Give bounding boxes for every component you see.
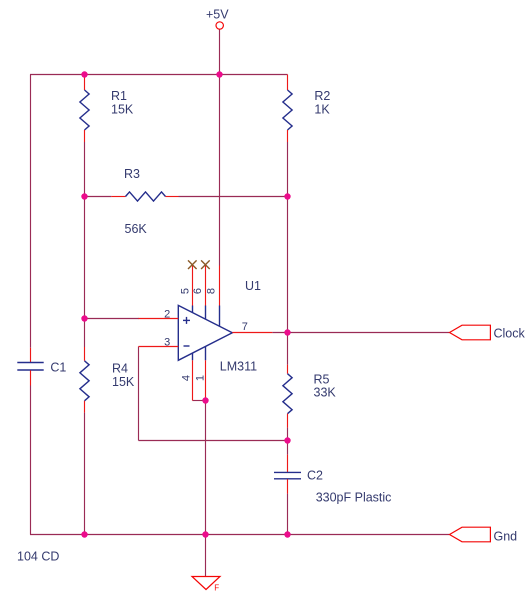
wire +5V stem bbox=[219, 29, 221, 74]
svg-text:15K: 15K bbox=[111, 103, 134, 117]
junction node R3 left bbox=[81, 193, 87, 199]
pin 3 bbox=[139, 337, 179, 349]
svg-text:6: 6 bbox=[192, 288, 204, 294]
wire pins 1-4 node to bottom rail bbox=[205, 401, 207, 535]
wire +5V rail down to pin 8 bbox=[219, 75, 221, 266]
wire R3 node to pin2 node bbox=[84, 197, 86, 348]
wire ground stem bbox=[205, 535, 207, 577]
pin 5 bbox=[180, 265, 193, 313]
wire pin4 jog bbox=[193, 400, 206, 402]
junction node R3 right bbox=[284, 193, 290, 199]
op-amp U1 LM311 bbox=[178, 279, 261, 374]
svg-text:2: 2 bbox=[164, 309, 170, 321]
svg-text:5: 5 bbox=[180, 288, 192, 294]
no-connect X on pin 5 bbox=[188, 260, 197, 269]
pin 7 bbox=[232, 321, 272, 333]
capacitor C2 bbox=[274, 455, 391, 505]
junction node bottom ground bbox=[202, 531, 208, 537]
svg-text:Gnd: Gnd bbox=[494, 529, 518, 543]
junction node +5V rail bbox=[216, 71, 222, 77]
wire output row bbox=[272, 332, 449, 334]
svg-text:15K: 15K bbox=[112, 375, 135, 389]
svg-text:+5V: +5V bbox=[206, 7, 229, 21]
wire R3 row left bbox=[85, 196, 112, 198]
no-connect X on pin 6 bbox=[201, 260, 210, 269]
junction node output bbox=[284, 329, 290, 335]
wire left rail lower (C1 to bottom rail) bbox=[30, 386, 32, 535]
svg-text:U1: U1 bbox=[245, 279, 261, 293]
wire R1 to R3 node bbox=[84, 142, 86, 197]
svg-text:8: 8 bbox=[206, 288, 218, 294]
junction node pin 2 bbox=[81, 315, 87, 321]
connector Clock bbox=[450, 325, 526, 340]
svg-text:7: 7 bbox=[242, 321, 248, 333]
pin 8 bbox=[206, 266, 220, 327]
pin 1 bbox=[195, 347, 207, 401]
resistor R3 bbox=[111, 167, 178, 236]
wire C2 to bottom rail bbox=[287, 494, 289, 535]
svg-text:1K: 1K bbox=[314, 103, 330, 117]
wire R2 to R3 node bbox=[287, 142, 289, 197]
junction node R1 top bbox=[81, 71, 87, 77]
pin 4 bbox=[181, 353, 193, 400]
svg-text:R5: R5 bbox=[314, 373, 330, 387]
wire top rail bbox=[30, 74, 288, 76]
pin 2 bbox=[139, 309, 179, 321]
wire feedback node to C2 bbox=[287, 441, 289, 455]
svg-text:R2: R2 bbox=[314, 89, 330, 103]
resistor R5 bbox=[283, 365, 337, 428]
svg-text:56K: 56K bbox=[125, 222, 148, 236]
resistor R2 bbox=[283, 75, 331, 143]
wire output node to R5 bbox=[287, 333, 289, 365]
junction node bottom R4 bbox=[81, 531, 87, 537]
svg-text:Clock: Clock bbox=[494, 326, 526, 340]
svg-text:F: F bbox=[214, 584, 219, 593]
svg-text:R4: R4 bbox=[112, 362, 128, 376]
pin 6 bbox=[192, 265, 205, 320]
wire pin2 row bbox=[85, 318, 140, 320]
wire R5 to feedback node bbox=[287, 428, 289, 441]
svg-text:104 CD: 104 CD bbox=[17, 550, 59, 564]
resistor R4 bbox=[80, 347, 135, 413]
junction node feedback R5-C2 bbox=[284, 437, 290, 443]
svg-text:R1: R1 bbox=[111, 89, 127, 103]
wire R4 to bottom rail bbox=[84, 413, 86, 535]
svg-text:330pF Plastic: 330pF Plastic bbox=[316, 491, 392, 505]
capacitor C1 bbox=[17, 348, 66, 386]
svg-text:LM311: LM311 bbox=[220, 360, 257, 374]
power symbol +5V bbox=[206, 7, 229, 29]
svg-text:3: 3 bbox=[164, 337, 170, 349]
wire left rail upper (to C1) bbox=[30, 75, 32, 348]
junction node bottom C2 bbox=[284, 531, 290, 537]
svg-text:C2: C2 bbox=[307, 469, 323, 483]
wire bottom rail bbox=[30, 534, 449, 536]
svg-text:4: 4 bbox=[181, 375, 193, 381]
resistor R1 bbox=[80, 75, 134, 143]
junction node pins 1-4 bbox=[202, 397, 208, 403]
svg-text:R3: R3 bbox=[124, 167, 140, 181]
ground symbol F bbox=[192, 577, 220, 593]
svg-text:1: 1 bbox=[195, 375, 207, 381]
wire feedback vertical bbox=[138, 347, 140, 441]
connector Gnd bbox=[450, 527, 518, 543]
wire R3 row right bbox=[179, 196, 288, 198]
svg-text:C1: C1 bbox=[50, 361, 66, 375]
svg-text:33K: 33K bbox=[314, 386, 337, 400]
wire R3 node to output node bbox=[287, 197, 289, 333]
wire feedback bottom row bbox=[139, 440, 288, 442]
